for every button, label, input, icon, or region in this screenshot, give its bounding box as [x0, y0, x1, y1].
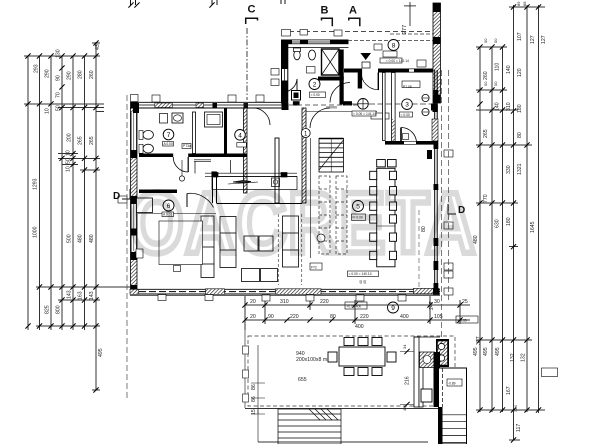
svg-text:A: A — [349, 5, 357, 17]
svg-text:143: 143 — [89, 291, 95, 300]
svg-text:80: 80 — [517, 132, 523, 138]
svg-text:FI 0.00: FI 0.00 — [353, 216, 363, 220]
svg-text:90: 90 — [56, 75, 62, 81]
svg-text:216: 216 — [405, 376, 411, 385]
svg-text:127: 127 — [541, 35, 547, 44]
svg-text:500: 500 — [67, 234, 73, 243]
svg-text:260: 260 — [89, 70, 95, 79]
svg-text:FT2: FT2 — [311, 266, 317, 270]
svg-text:770: 770 — [483, 194, 489, 203]
svg-text:290: 290 — [45, 69, 51, 78]
svg-text:4: 4 — [238, 132, 242, 139]
svg-text:00: 00 — [493, 38, 498, 43]
svg-text:= 0.55: = 0.55 — [458, 319, 467, 323]
svg-text:43: 43 — [95, 44, 101, 50]
svg-text:107: 107 — [517, 32, 523, 41]
svg-text:220: 220 — [320, 299, 329, 305]
svg-text:7: 7 — [167, 132, 171, 139]
svg-text:-0.89: -0.89 — [448, 381, 456, 385]
svg-text:10: 10 — [66, 166, 72, 172]
svg-text:480: 480 — [89, 234, 95, 243]
svg-text:00: 00 — [493, 81, 498, 86]
svg-text:10: 10 — [45, 108, 51, 114]
svg-text:143: 143 — [67, 290, 73, 299]
svg-text:180: 180 — [517, 104, 523, 113]
svg-text:495: 495 — [495, 347, 501, 356]
svg-text:127: 127 — [530, 35, 536, 44]
svg-text:8: 8 — [392, 43, 396, 50]
svg-text:117: 117 — [516, 424, 522, 432]
svg-text:00: 00 — [483, 38, 488, 43]
svg-text:D: D — [113, 191, 120, 202]
svg-text:277: 277 — [402, 25, 408, 34]
svg-text:20: 20 — [250, 299, 256, 305]
svg-text:167: 167 — [506, 386, 512, 395]
svg-text:89: 89 — [516, 1, 521, 6]
svg-text:220: 220 — [360, 314, 369, 320]
svg-text:293: 293 — [34, 64, 40, 73]
svg-text:3: 3 — [405, 102, 409, 109]
svg-text:50: 50 — [56, 105, 62, 111]
svg-text:= 0.00 = 141.14: = 0.00 = 141.14 — [353, 112, 376, 116]
svg-text:+0.08 400: +0.08 400 — [347, 304, 362, 308]
svg-text:265: 265 — [483, 129, 489, 138]
svg-text:C: C — [248, 4, 256, 16]
svg-text:= 0.00 = 140.14: = 0.00 = 140.14 — [349, 272, 372, 276]
svg-text:140: 140 — [506, 65, 512, 74]
svg-text:132: 132 — [510, 353, 516, 362]
svg-text:480: 480 — [78, 234, 84, 243]
svg-text:200: 200 — [67, 133, 73, 142]
svg-text:290: 290 — [67, 71, 73, 80]
svg-text:495: 495 — [473, 347, 479, 356]
svg-text:10: 10 — [66, 150, 72, 156]
svg-text:163: 163 — [78, 291, 84, 300]
svg-text:495: 495 — [98, 348, 104, 357]
svg-text:310: 310 — [280, 299, 289, 305]
svg-text:800: 800 — [56, 305, 62, 314]
svg-text:2: 2 — [313, 82, 317, 89]
svg-text:15: 15 — [251, 409, 257, 415]
svg-text:1000: 1000 — [33, 226, 39, 238]
svg-text:9: 9 — [391, 305, 395, 312]
svg-text:25: 25 — [462, 299, 468, 305]
svg-text:337: 337 — [476, 336, 482, 345]
svg-text:1293: 1293 — [33, 178, 39, 190]
svg-text:P7.08: P7.08 — [403, 85, 412, 89]
svg-text:88: 88 — [522, 1, 527, 6]
svg-text:= 0.00: = 0.00 — [401, 113, 410, 117]
svg-text:220: 220 — [290, 314, 299, 320]
svg-text:330: 330 — [506, 165, 512, 174]
svg-text:140: 140 — [495, 102, 501, 111]
svg-text:200x100x8 mm: 200x100x8 mm — [296, 357, 331, 363]
svg-text:265: 265 — [78, 136, 84, 145]
svg-text:90: 90 — [268, 314, 274, 320]
svg-text:34: 34 — [402, 344, 407, 349]
svg-text:A 0.00: A 0.00 — [164, 142, 174, 146]
svg-text:825: 825 — [45, 305, 51, 314]
svg-text:50: 50 — [66, 158, 72, 164]
svg-text:260: 260 — [483, 71, 489, 80]
svg-text:180: 180 — [506, 217, 512, 226]
svg-text:495: 495 — [483, 347, 489, 356]
svg-text:= 0.00 = 142.14: = 0.00 = 142.14 — [386, 59, 409, 63]
svg-text:310: 310 — [506, 102, 512, 111]
svg-text:= 0.00: = 0.00 — [311, 93, 320, 97]
svg-text:655: 655 — [298, 377, 307, 383]
svg-text:86: 86 — [251, 384, 257, 390]
svg-text:400: 400 — [400, 314, 409, 320]
svg-text:70: 70 — [56, 92, 62, 98]
svg-text:A 0.01: A 0.01 — [163, 213, 173, 217]
svg-text:400: 400 — [355, 324, 364, 330]
svg-text:265: 265 — [89, 136, 95, 145]
svg-text:110: 110 — [495, 63, 501, 71]
svg-text:630: 630 — [495, 219, 501, 228]
svg-text:20: 20 — [250, 314, 256, 320]
svg-text:86: 86 — [251, 396, 257, 402]
svg-text:B: B — [321, 5, 329, 17]
svg-text:1321: 1321 — [517, 163, 523, 175]
svg-text:132: 132 — [521, 353, 527, 362]
svg-text:280: 280 — [78, 70, 84, 79]
svg-text:00: 00 — [483, 81, 488, 86]
svg-text:130: 130 — [56, 49, 62, 58]
svg-text:120: 120 — [517, 68, 523, 77]
svg-text:45: 45 — [363, 280, 367, 284]
svg-text:PT3a: PT3a — [183, 144, 191, 148]
svg-text:OACRETA: OACRETA — [130, 176, 477, 272]
svg-text:334: 334 — [513, 405, 518, 412]
svg-text:1645: 1645 — [530, 221, 536, 233]
